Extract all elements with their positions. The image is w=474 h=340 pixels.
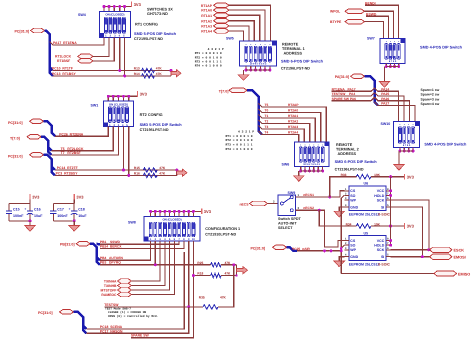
svg-text:T3: T3 xyxy=(265,125,269,129)
power 3V3 caps C15 C16 xyxy=(29,194,31,200)
wire RT1A0 xyxy=(229,10,265,41)
svg-text:U5: U5 xyxy=(364,231,369,235)
wire RT1ENA PA17 xyxy=(332,88,375,91)
svg-text:RT1A1: RT1A1 xyxy=(201,14,212,18)
svg-text:SPARE SW PA6: SPARE SW PA6 xyxy=(332,97,357,101)
wire PA24 xyxy=(375,88,399,122)
svg-text:PA26: PA26 xyxy=(381,97,389,101)
svg-text:Switch SPDT: Switch SPDT xyxy=(278,217,301,221)
bus PB xyxy=(90,244,100,265)
svg-text:ON (CLOSED): ON (CLOSED) xyxy=(162,218,181,222)
svg-text:47K: 47K xyxy=(159,166,166,170)
wire TXINHB xyxy=(132,241,165,286)
switch SW4 DIP-5 xyxy=(100,12,131,38)
ground SW6 xyxy=(294,176,304,182)
svg-text:MTSTOFF: MTSTOFF xyxy=(101,288,117,292)
wire PA27 xyxy=(375,102,416,122)
svg-text:RT2A1: RT2A1 xyxy=(288,114,298,118)
svg-text:ADDRESS: ADDRESS xyxy=(338,152,357,156)
ground rail SW7 xyxy=(385,64,387,67)
svg-text:RAMEOC: RAMEOC xyxy=(101,293,117,297)
svg-text:CT21910LPST-ND: CT21910LPST-ND xyxy=(205,232,236,236)
resistor R18 47K xyxy=(193,275,210,277)
svg-text:R25: R25 xyxy=(197,261,203,265)
svg-text:T0: T0 xyxy=(265,109,269,113)
svg-text:RT2A0: RT2A0 xyxy=(288,109,298,113)
svg-text:CONFIGURATION 1: CONFIGURATION 1 xyxy=(205,227,240,231)
svg-text:RT1AP: RT1AP xyxy=(201,4,213,8)
svg-text:GND: GND xyxy=(350,255,358,259)
svg-text:EEPROM 25LC512: EEPROM 25LC512 xyxy=(349,262,380,266)
svg-text:R18: R18 xyxy=(197,272,203,276)
power 3V3 R34 xyxy=(404,223,406,229)
svg-text:●: ● xyxy=(313,144,314,146)
svg-text:TERMINAL 2: TERMINAL 2 xyxy=(336,148,359,152)
svg-text:PC17 NHSGN: PC17 NHSGN xyxy=(100,329,123,333)
svg-text:PB[31:0]: PB[31:0] xyxy=(60,243,75,247)
wire T2 RT2A2 xyxy=(259,120,310,142)
wire SPARE SW PA6 xyxy=(332,97,375,100)
bus PC left mid xyxy=(44,121,56,136)
svg-text:RT2 = 0 0 1 0 0: RT2 = 0 0 1 0 0 xyxy=(195,56,222,59)
ground caps C17 C18 xyxy=(69,226,79,232)
svg-text:8-SOIC: 8-SOIC xyxy=(377,262,390,266)
ground rail SW10 xyxy=(399,148,401,152)
wire T1 RT2A1 xyxy=(259,115,316,142)
svg-text:PA[31:0]: PA[31:0] xyxy=(335,75,349,79)
power 3V3 R33 xyxy=(404,174,406,180)
svg-text:RT1 = 0 0 0 1 0: RT1 = 0 0 0 1 0 xyxy=(195,52,222,55)
svg-text:CT2195LPST-ND: CT2195LPST-ND xyxy=(140,128,169,132)
svg-text:●: ● xyxy=(322,144,323,146)
svg-text:10uF: 10uF xyxy=(78,214,87,218)
wire PB3 DPYRQ / R25 net xyxy=(100,264,211,266)
svg-text:●: ● xyxy=(408,124,409,126)
wire T5 RT2AP xyxy=(259,104,327,142)
svg-text:SO: SO xyxy=(350,244,355,248)
wire EEMISO vertical xyxy=(341,195,344,273)
wire BTYPE xyxy=(365,22,384,39)
svg-text:C15: C15 xyxy=(13,208,20,212)
wire join R13 R14 xyxy=(156,70,171,72)
svg-text:+: + xyxy=(24,207,26,211)
wire R33 net xyxy=(330,177,357,197)
svg-text:RT2AP: RT2AP xyxy=(288,103,299,107)
svg-text:ON (CLOSED): ON (CLOSED) xyxy=(105,13,124,17)
svg-text:nECS1: nECS1 xyxy=(303,193,314,197)
switch SW5 DIP-6 xyxy=(240,41,277,66)
wire PA17 RT1ENA xyxy=(50,38,105,46)
svg-text:SCK: SCK xyxy=(377,248,385,252)
svg-text:SW4: SW4 xyxy=(78,13,86,17)
wire T4 RT2A4 xyxy=(259,131,299,142)
svg-text:EMOSI: EMOSI xyxy=(454,256,466,260)
svg-text:WP: WP xyxy=(350,198,356,202)
svg-text:T4: T4 xyxy=(265,131,269,135)
svg-text:PC14 RT2TF: PC14 RT2TF xyxy=(57,166,78,170)
svg-text:●: ● xyxy=(260,44,261,46)
svg-text:PC[31:0]: PC[31:0] xyxy=(15,30,30,34)
svg-text:SI: SI xyxy=(381,205,384,209)
svg-text:8 7 6 5: 8 7 6 5 xyxy=(389,60,397,63)
wire TXINHA xyxy=(132,241,161,281)
ground SW10 xyxy=(394,165,404,171)
switch SW7 DIP-4 xyxy=(380,39,405,64)
wire BENDI xyxy=(365,5,399,38)
svg-text:SMD 5-POS DIP Switch: SMD 5-POS DIP Switch xyxy=(134,32,177,36)
svg-text:CLOSED (1) = FORCED ON: CLOSED (1) = FORCED ON xyxy=(108,310,146,314)
svg-text:ADDRESS: ADDRESS xyxy=(284,52,303,56)
svg-text:HOLD: HOLD xyxy=(374,194,384,198)
wire PC14 RT2TF xyxy=(55,169,177,171)
svg-text:100nF: 100nF xyxy=(13,214,24,218)
svg-text:SPARE SW: SPARE SW xyxy=(131,334,150,338)
svg-text:●: ● xyxy=(309,144,310,146)
svg-text:SWITCHES 3X: SWITCHES 3X xyxy=(147,8,173,12)
svg-text:●: ● xyxy=(305,144,306,146)
svg-text:●: ● xyxy=(394,41,395,43)
wire R35 to junction xyxy=(218,265,234,307)
svg-text:Spare=4 sw: Spare=4 sw xyxy=(421,102,440,106)
svg-text:3V3: 3V3 xyxy=(76,194,84,199)
svg-text:SCK: SCK xyxy=(377,198,385,202)
svg-text:PC[31:0]: PC[31:0] xyxy=(251,246,266,250)
svg-text:ON (CLOSED): ON (CLOSED) xyxy=(109,102,128,106)
svg-text:BTYPE: BTYPE xyxy=(330,20,342,24)
svg-text:●: ● xyxy=(246,44,247,46)
svg-text:PC26 RT2ENA: PC26 RT2ENA xyxy=(59,132,83,136)
svg-text:nECS: nECS xyxy=(239,203,249,207)
svg-text:OPEN (0) = Controlled by MCU.: OPEN (0) = Controlled by MCU. xyxy=(108,314,159,318)
svg-text:47K: 47K xyxy=(156,67,163,71)
wire RT1A2 xyxy=(229,21,254,42)
svg-text:4 3 2 1 P: 4 3 2 1 P xyxy=(208,48,224,51)
power 3V3 caps C17 C18 xyxy=(73,194,75,200)
ground U5 xyxy=(339,257,344,261)
offsheet arrow config resistors xyxy=(237,267,248,274)
wire T3 RT2A3 xyxy=(259,126,305,142)
svg-text:RT2 CONFIG: RT2 CONFIG xyxy=(140,113,163,117)
svg-text:●: ● xyxy=(398,41,399,43)
svg-text:3V3: 3V3 xyxy=(407,174,415,179)
wire PC3 RT2BSY xyxy=(55,174,177,176)
svg-text:Spare=3 sw: Spare=3 sw xyxy=(421,97,440,101)
svg-text:PA17 RT1ENA: PA17 RT1ENA xyxy=(53,41,77,45)
svg-text:SMD 4-POS DIP Switch: SMD 4-POS DIP Switch xyxy=(424,142,467,146)
svg-text:T1: T1 xyxy=(265,114,269,118)
svg-text:SW8: SW8 xyxy=(128,221,136,225)
svg-text:WP: WP xyxy=(350,248,356,252)
svg-text:PB3 DPYRQ: PB3 DPYRQ xyxy=(100,261,121,265)
svg-text:4 3 2 1 P: 4 3 2 1 P xyxy=(238,131,254,134)
svg-text:●: ● xyxy=(413,124,414,126)
svg-text:47K: 47K xyxy=(220,296,227,300)
wire PB4 AUTOEN xyxy=(100,241,151,260)
wire T7 RT2BSF xyxy=(52,127,119,155)
bus PC bottom left xyxy=(74,312,87,329)
wire T0 RT2A0 xyxy=(259,109,321,142)
wire RT1LOCK xyxy=(93,38,109,57)
svg-text:RT1BSF: RT1BSF xyxy=(57,59,70,63)
ground SW7 xyxy=(379,82,389,88)
svg-text:CS: CS xyxy=(350,239,356,243)
svg-text:C18: C18 xyxy=(78,208,85,212)
wire RT1A3 xyxy=(229,26,249,41)
svg-text:SW10: SW10 xyxy=(381,122,391,126)
svg-text:RT1A2: RT1A2 xyxy=(201,19,212,23)
svg-text:RT1A3: RT1A3 xyxy=(201,25,212,29)
svg-text:C17: C17 xyxy=(57,208,64,212)
bus T left xyxy=(41,137,52,151)
svg-text:REMOTE: REMOTE xyxy=(282,43,299,47)
svg-text:8-SOIC: 8-SOIC xyxy=(377,213,390,217)
port EMISO xyxy=(341,273,434,275)
svg-text:HOLD: HOLD xyxy=(374,244,384,248)
svg-text:R35: R35 xyxy=(199,296,205,300)
svg-text:●: ● xyxy=(404,124,405,126)
svg-text:●: ● xyxy=(386,41,387,43)
svg-text:47K: 47K xyxy=(159,172,166,176)
svg-text:R15: R15 xyxy=(134,166,140,170)
svg-text:PB4 AUTOEN: PB4 AUTOEN xyxy=(100,256,124,260)
svg-text:PA24: PA24 xyxy=(381,87,389,91)
svg-text:TEST Mode SW8-7: TEST Mode SW8-7 xyxy=(105,307,131,311)
svg-text:CT2196LPST-ND: CT2196LPST-ND xyxy=(335,167,364,171)
svg-text:47K: 47K xyxy=(225,261,232,265)
wire join R15 R16 xyxy=(176,170,178,175)
svg-text:nECS2: nECS2 xyxy=(303,206,314,210)
capacitor C15 100nF and C16 10uF xyxy=(9,202,30,204)
svg-text:●: ● xyxy=(250,44,251,46)
wire PA26 xyxy=(375,97,410,121)
svg-text:3V3: 3V3 xyxy=(140,92,148,97)
junction R25 R18 R35 xyxy=(236,265,238,276)
svg-text:PC[31:0]: PC[31:0] xyxy=(38,311,53,315)
svg-text:TXINHB: TXINHB xyxy=(104,284,117,288)
svg-text:RT4 = 0 1 0 0 0: RT4 = 0 1 0 0 0 xyxy=(226,148,253,151)
svg-text:3V3: 3V3 xyxy=(32,194,40,199)
wire nECS to SW9 xyxy=(268,203,279,205)
bus PC left mid 2 xyxy=(44,155,56,170)
power 3V3 rail SW4 xyxy=(104,6,131,8)
wire WPOL xyxy=(365,11,394,38)
svg-text:RT4 = 0 1 0 0 0: RT4 = 0 1 0 0 0 xyxy=(195,65,222,68)
wire EESCK net U6 xyxy=(391,200,429,250)
wire R34 net xyxy=(319,210,356,226)
port ESCK xyxy=(391,249,430,251)
svg-text:SW6: SW6 xyxy=(282,162,290,166)
wire BSWD xyxy=(366,16,389,38)
svg-text:PC13 RT1BSY: PC13 RT1BSY xyxy=(52,72,76,76)
wire EEMOSI net U6 xyxy=(391,207,423,257)
svg-text:PB24 BERCX: PB24 BERCX xyxy=(100,245,122,249)
svg-text:3V3: 3V3 xyxy=(407,224,415,229)
svg-text:RT1 CONFIG: RT1 CONFIG xyxy=(135,23,158,27)
offsheet arrow RT1 resistors xyxy=(171,70,181,77)
svg-text:PC10 RT1TF: PC10 RT1TF xyxy=(52,66,73,70)
svg-text:WPOL: WPOL xyxy=(330,10,340,14)
svg-text:AUTO-INIT: AUTO-INIT xyxy=(278,222,297,226)
ground caps C15 C16 xyxy=(25,226,35,232)
svg-text:EEPROM 25LC512: EEPROM 25LC512 xyxy=(349,213,380,217)
wire PC26 RT2ENA xyxy=(55,127,108,137)
svg-text:PA25: PA25 xyxy=(381,92,389,96)
svg-text:PC18 SCENA: PC18 SCENA xyxy=(100,325,123,329)
svg-text:3V3: 3V3 xyxy=(134,2,142,7)
svg-text:●: ● xyxy=(318,144,319,146)
svg-text:TESTSW PA4: TESTSW PA4 xyxy=(332,92,356,96)
svg-text:RT2 = 0 0 1 0 0: RT2 = 0 0 1 0 0 xyxy=(226,139,253,142)
wire PC13 RT1BSY xyxy=(50,71,172,76)
wire MTSTOFF xyxy=(132,241,170,290)
ground U6 xyxy=(339,207,344,211)
svg-text:RT2A3: RT2A3 xyxy=(288,125,298,129)
svg-text:SW7: SW7 xyxy=(367,37,375,41)
wire RT1BSF xyxy=(93,38,114,61)
wire RT1A4 xyxy=(229,31,244,41)
power 3V3 rail SW8 xyxy=(150,210,202,212)
svg-text:●: ● xyxy=(300,144,301,146)
wire PC17 NHSGN xyxy=(87,307,189,333)
svg-text:10 9 8 7 6 5 4 3: 10 9 8 7 6 5 4 3 xyxy=(303,163,320,166)
ground rail SW5 xyxy=(245,66,247,70)
svg-text:R14: R14 xyxy=(134,72,140,76)
svg-text:RT2A4: RT2A4 xyxy=(288,131,298,135)
svg-text:R13: R13 xyxy=(134,67,140,71)
svg-text:SMD 6-POS DIP Switch: SMD 6-POS DIP Switch xyxy=(335,160,378,164)
svg-text:T5: T5 xyxy=(265,103,269,107)
svg-text:T[7:0]: T[7:0] xyxy=(10,136,20,140)
svg-text:GND: GND xyxy=(350,205,358,209)
wire RAMEOC xyxy=(132,241,175,295)
capacitor C17 100nF and C18 10uF xyxy=(53,202,74,204)
svg-text:U6: U6 xyxy=(364,182,369,186)
svg-text:Spare=2 sw: Spare=2 sw xyxy=(421,93,440,97)
svg-text:GH7173-ND: GH7173-ND xyxy=(147,12,168,16)
svg-text:8 7 6 5: 8 7 6 5 xyxy=(403,144,411,147)
svg-text:●: ● xyxy=(269,44,270,46)
svg-text:R16: R16 xyxy=(134,172,140,176)
svg-text:TERMINAL 1: TERMINAL 1 xyxy=(282,47,305,51)
svg-text:SO: SO xyxy=(350,194,355,198)
svg-text:REMOTE: REMOTE xyxy=(336,143,353,147)
svg-text:3V3: 3V3 xyxy=(204,209,212,214)
svg-text:RT1ENA PA17: RT1ENA PA17 xyxy=(332,87,356,91)
svg-text:100nF: 100nF xyxy=(57,214,68,218)
wire PB24 BERCX xyxy=(100,241,184,249)
wire PC18 SCENA xyxy=(87,252,185,329)
svg-text:RT1A0: RT1A0 xyxy=(201,9,212,13)
svg-text:SELECT: SELECT xyxy=(278,226,293,230)
svg-text:PC[31:0]: PC[31:0] xyxy=(8,121,23,125)
svg-text:SW1: SW1 xyxy=(91,103,99,107)
svg-text:+: + xyxy=(69,207,71,211)
svg-text:Spare=1 sw: Spare=1 sw xyxy=(421,88,440,92)
svg-text:SW9: SW9 xyxy=(288,191,296,195)
wire PC10 RT1TF xyxy=(53,70,172,72)
svg-text:T2: T2 xyxy=(265,120,269,124)
ground SW5 xyxy=(238,75,248,81)
svg-text:RT1A4: RT1A4 xyxy=(201,30,212,34)
svg-text:RT3 = 0 0 1 1 1: RT3 = 0 0 1 1 1 xyxy=(195,60,222,63)
svg-text:SMD 6-POS DIP Switch: SMD 6-POS DIP Switch xyxy=(281,60,324,64)
svg-text:CS: CS xyxy=(350,189,356,193)
svg-text:T5 RT2LOCK: T5 RT2LOCK xyxy=(61,147,84,151)
power 3V3 rail SW1 xyxy=(108,95,137,97)
svg-text:CT2195LPST-ND: CT2195LPST-ND xyxy=(134,37,163,41)
port EMOSI xyxy=(391,256,430,258)
svg-text:VCC: VCC xyxy=(377,239,385,243)
bus PC25 xyxy=(287,247,298,251)
svg-text:10 9 8 7 6 5 4 3: 10 9 8 7 6 5 4 3 xyxy=(250,63,267,66)
svg-text:TESTSW: TESTSW xyxy=(104,303,119,307)
svg-text:SMD 5-POS DIP Switch: SMD 5-POS DIP Switch xyxy=(140,123,183,127)
svg-text:47K: 47K xyxy=(225,272,232,276)
wire TESTSW PA4 xyxy=(332,93,375,96)
svg-text:●: ● xyxy=(399,124,400,126)
svg-text:PA27: PA27 xyxy=(381,102,389,106)
svg-text:CT2196LPST-ND: CT2196LPST-ND xyxy=(281,67,310,71)
svg-text:C16: C16 xyxy=(34,208,41,212)
svg-text:SW5: SW5 xyxy=(226,37,234,41)
wire PA25 xyxy=(375,93,405,122)
svg-text:VCC: VCC xyxy=(377,189,385,193)
wire 3V3 distribution verticals xyxy=(390,177,392,246)
svg-text:T7 RT2BSF: T7 RT2BSF xyxy=(61,151,81,155)
wire RT1AP xyxy=(229,5,271,41)
svg-text:●: ● xyxy=(255,44,256,46)
wire PB1 SSWD xyxy=(100,241,179,244)
bus PC top-left xyxy=(45,31,53,71)
svg-text:RT1 = 0 0 0 1 0: RT1 = 0 0 0 1 0 xyxy=(226,135,253,138)
svg-text:10uF: 10uF xyxy=(34,214,43,218)
svg-text:TXINHA: TXINHA xyxy=(104,279,117,283)
switch SW6 DIP-6 xyxy=(294,142,329,167)
svg-text:RT3 = 0 0 1 1 1: RT3 = 0 0 1 1 1 xyxy=(226,144,253,147)
switch SW1 DIP-5 xyxy=(104,101,134,127)
switch SW10 DIP-4 xyxy=(394,122,420,148)
wire T5 RT2LOCK xyxy=(52,127,114,151)
svg-text:EMISO: EMISO xyxy=(458,272,470,276)
offsheet arrow RT2 resistors xyxy=(177,169,187,176)
svg-text:ESCK: ESCK xyxy=(454,249,465,253)
ground rail SW6 xyxy=(300,167,302,171)
svg-text:PC3 RT2BSY: PC3 RT2BSY xyxy=(56,172,79,176)
bus T middle xyxy=(247,90,262,134)
svg-text:SI: SI xyxy=(381,255,384,259)
svg-text:●: ● xyxy=(265,44,266,46)
svg-text:●: ● xyxy=(390,41,391,43)
svg-text:PC[31:0]: PC[31:0] xyxy=(8,154,23,158)
bus PA xyxy=(365,76,379,105)
svg-text:SMD 4-POS DIP Switch: SMD 4-POS DIP Switch xyxy=(420,46,463,50)
svg-text:RT2A2: RT2A2 xyxy=(288,120,298,124)
svg-text:T[7:0]: T[7:0] xyxy=(219,90,229,94)
wire RT1A1 xyxy=(229,15,260,41)
switch SW8 DIP-10 xyxy=(144,217,200,242)
